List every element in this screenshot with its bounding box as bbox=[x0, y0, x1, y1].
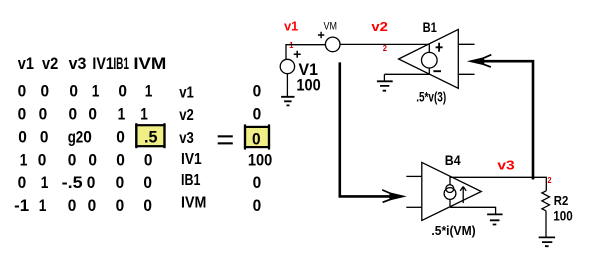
unknown vector labels v1 v2 v3 IV1 IB1 IVM bbox=[179, 84, 206, 211]
svg-text:VM: VM bbox=[324, 21, 338, 33]
VM polarity plus bbox=[318, 32, 324, 38]
svg-text:2: 2 bbox=[383, 44, 388, 53]
svg-text:0: 0 bbox=[69, 82, 78, 101]
svg-text:0: 0 bbox=[18, 82, 27, 101]
svg-text:100: 100 bbox=[553, 207, 573, 223]
svg-text:IB1: IB1 bbox=[113, 54, 129, 73]
feedback arrow from v3 into B1 output (thick, pointing left) bbox=[467, 55, 533, 180]
svg-text:.5*v(3): .5*v(3) bbox=[416, 88, 446, 104]
svg-text:IV1: IV1 bbox=[92, 54, 113, 73]
wire: v2 node from VM to B1 input bbox=[340, 43, 429, 45]
svg-text:.5: .5 bbox=[144, 127, 158, 146]
svg-text:0: 0 bbox=[118, 82, 127, 101]
svg-text:0: 0 bbox=[41, 82, 50, 101]
wire: v1 node horizontal from V1 to VM bbox=[286, 45, 325, 60]
svg-text:1: 1 bbox=[140, 105, 148, 124]
svg-text:0: 0 bbox=[88, 150, 97, 169]
matrix row 4 coefficients bbox=[20, 150, 153, 169]
annotation arrow from VM/v2 into B4 input (thick, pointing right) bbox=[340, 62, 407, 202]
svg-text:0: 0 bbox=[69, 105, 78, 124]
svg-text:0: 0 bbox=[116, 127, 125, 146]
V1 polarity plus bbox=[294, 51, 301, 58]
svg-text:100: 100 bbox=[296, 76, 320, 95]
svg-text:0: 0 bbox=[253, 173, 262, 192]
svg-text:0: 0 bbox=[252, 129, 261, 148]
svg-text:0: 0 bbox=[253, 196, 262, 215]
svg-text:0: 0 bbox=[68, 196, 77, 215]
B4 internal current source (double circle) with leads bbox=[444, 176, 456, 207]
svg-text:R2: R2 bbox=[554, 193, 569, 208]
ground at B4 lower terminal bbox=[487, 214, 503, 224]
svg-text:1: 1 bbox=[39, 196, 47, 215]
svg-text:2: 2 bbox=[547, 176, 552, 185]
B1 output stubs bbox=[458, 44, 474, 74]
svg-text:1: 1 bbox=[92, 82, 100, 101]
svg-text:v2: v2 bbox=[179, 107, 194, 124]
svg-text:0: 0 bbox=[83, 127, 92, 146]
svg-text:0: 0 bbox=[18, 127, 27, 146]
svg-text:0: 0 bbox=[18, 173, 27, 192]
matrix row 1 coefficients bbox=[18, 82, 153, 101]
svg-text:1: 1 bbox=[20, 150, 28, 169]
behavioral source B4 (triangle) bbox=[422, 162, 482, 220]
svg-text:v1: v1 bbox=[179, 84, 194, 101]
ground below R2 bbox=[539, 237, 555, 246]
svg-text:0: 0 bbox=[39, 105, 48, 124]
svg-text:0: 0 bbox=[143, 173, 152, 192]
B4 input stubs bbox=[406, 176, 422, 207]
svg-text:IV1: IV1 bbox=[181, 151, 202, 168]
svg-text:-1: -1 bbox=[14, 196, 29, 215]
B1 minus sign bbox=[433, 70, 441, 72]
matrix row 6 coefficients bbox=[14, 196, 152, 215]
matrix row 3 coefficients bbox=[18, 127, 125, 146]
svg-text:0: 0 bbox=[87, 173, 96, 192]
svg-text:IB1: IB1 bbox=[181, 172, 200, 189]
matrix row 2 coefficients bbox=[18, 105, 148, 124]
svg-text:0: 0 bbox=[143, 196, 152, 215]
svg-text:0: 0 bbox=[88, 196, 97, 215]
svg-text:v2: v2 bbox=[42, 54, 58, 73]
svg-text:0: 0 bbox=[253, 82, 262, 101]
svg-text:B1: B1 bbox=[423, 19, 437, 35]
svg-text:v2: v2 bbox=[371, 19, 388, 34]
svg-text:0: 0 bbox=[116, 196, 125, 215]
svg-text:1: 1 bbox=[118, 105, 126, 124]
B1 internal source circle with leads bbox=[422, 44, 438, 74]
matrix column header row: v1 v2 v3 IV1 IB1 IVM bbox=[18, 54, 167, 73]
svg-text:0: 0 bbox=[88, 105, 97, 124]
svg-text:IVM: IVM bbox=[181, 195, 206, 212]
svg-text:g2: g2 bbox=[68, 127, 84, 146]
ground below V1 bbox=[281, 97, 294, 106]
svg-text:1: 1 bbox=[145, 82, 153, 101]
wire: ground to B1 lower input bbox=[384, 73, 429, 75]
svg-text:0: 0 bbox=[116, 173, 125, 192]
highlighted matrix cell .5 (yellow box) bbox=[136, 123, 164, 148]
svg-text:v3: v3 bbox=[69, 54, 87, 73]
svg-text:0: 0 bbox=[38, 150, 47, 169]
ground at B1 inverting input bbox=[377, 74, 393, 90]
resistor R2 (zigzag) bbox=[542, 191, 550, 211]
svg-text:B4: B4 bbox=[445, 152, 461, 168]
equals sign bbox=[218, 135, 233, 144]
behavioral source B1 (triangle) bbox=[399, 29, 459, 88]
svg-text:.5*i(VM): .5*i(VM) bbox=[431, 223, 475, 238]
highlighted RHS cell 0 (yellow box) bbox=[245, 124, 269, 149]
svg-text:0: 0 bbox=[116, 150, 125, 169]
wire: R2 to ground bbox=[545, 211, 547, 238]
svg-text:IVM: IVM bbox=[133, 54, 166, 73]
wire: V1 to ground bbox=[286, 74, 288, 97]
svg-text:100: 100 bbox=[248, 150, 272, 169]
wire: B4 lower terminal to ground bbox=[450, 207, 496, 214]
ammeter VM (circle) bbox=[325, 37, 340, 52]
B1 plus sign bbox=[436, 43, 443, 52]
svg-text:v1: v1 bbox=[18, 54, 34, 73]
svg-text:0: 0 bbox=[18, 105, 27, 124]
B4 current direction arrow (up) bbox=[460, 187, 466, 204]
svg-text:0: 0 bbox=[40, 127, 49, 146]
svg-text:-.5: -.5 bbox=[62, 173, 83, 192]
svg-text:0: 0 bbox=[253, 105, 262, 124]
svg-text:v3: v3 bbox=[179, 130, 194, 147]
svg-text:v3: v3 bbox=[497, 157, 514, 172]
svg-text:0: 0 bbox=[68, 150, 77, 169]
voltage source V1 (circle) bbox=[280, 59, 294, 73]
svg-text:0: 0 bbox=[144, 150, 153, 169]
svg-text:1: 1 bbox=[41, 173, 49, 192]
svg-text:v1: v1 bbox=[284, 19, 298, 34]
matrix row 5 coefficients bbox=[18, 173, 152, 192]
right-hand-side vector values bbox=[248, 82, 272, 215]
wire: B4 output to node v3 / R2 bbox=[450, 177, 546, 191]
